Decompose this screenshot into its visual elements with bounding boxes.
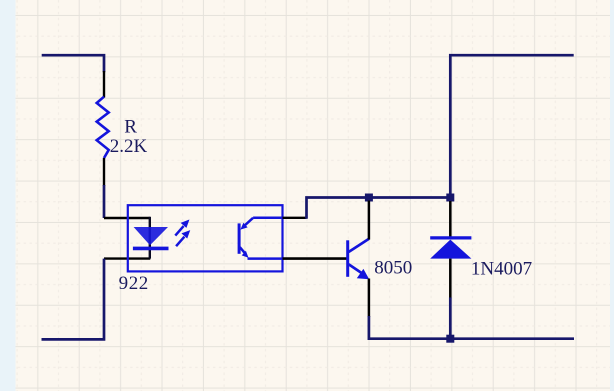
junction at diode top node bbox=[446, 194, 454, 202]
junction at bottom rail / diode bbox=[446, 335, 454, 343]
diode D1 cathode pin bbox=[449, 201, 452, 238]
wire: opto collector up and right to node bbox=[307, 198, 451, 219]
opto phototransistor collector lead bbox=[253, 217, 282, 220]
transistor Q1 collector pin bbox=[368, 201, 371, 240]
diode D1 triangle bbox=[430, 240, 471, 259]
opto phototransistor collector arrowhead bbox=[240, 223, 247, 230]
opto light arrow upper bbox=[175, 220, 188, 235]
junction at Q1 collector node bbox=[365, 194, 373, 202]
opto phototransistor emitter diagonal bbox=[240, 247, 245, 253]
diode D1 cathode bar bbox=[430, 236, 471, 239]
wire: Q1 emitter down to bottom rail bbox=[369, 316, 574, 339]
opto phototransistor emitter arrowhead bbox=[242, 251, 249, 258]
resistor R1 zigzag bbox=[97, 97, 109, 158]
wire: top-right horizontal and down to diode bbox=[450, 55, 573, 197]
transistor Q1 base bar bbox=[346, 240, 349, 276]
wire: R1 bottom to opto pin1 bbox=[103, 185, 106, 218]
opto phototransistor emitter lead bbox=[248, 257, 283, 260]
wire: diode anode to bottom rail bbox=[449, 298, 452, 339]
opto pin3 (emitter, bottom-right) joined with Q1 base pin bbox=[283, 257, 348, 260]
svg-text:R: R bbox=[124, 116, 137, 137]
opto phototransistor collector diagonal bbox=[244, 218, 254, 227]
opto LED cathode bar bbox=[133, 247, 169, 251]
svg-text:8050: 8050 bbox=[374, 258, 412, 279]
optocoupler U1 box bbox=[128, 205, 283, 271]
opto phototransistor base bar bbox=[238, 223, 241, 253]
wire: top-left horizontal and down to R1 bbox=[42, 55, 104, 72]
opto LED center lead bbox=[149, 217, 151, 259]
wire: opto pin2 down and left to edge bbox=[42, 259, 105, 340]
opto pin4 (collector, top-right) bbox=[283, 217, 307, 219]
opto U1 pin1 (anode, top-left) bbox=[104, 217, 150, 219]
opto U1 pin2 (cathode, bottom-left) bbox=[104, 257, 150, 259]
transistor Q1 emitter arrowhead bbox=[357, 269, 369, 279]
opto LED triangle bbox=[134, 227, 168, 245]
resistor R1 pin bottom bbox=[103, 158, 105, 186]
transistor Q1 collector diagonal bbox=[349, 239, 369, 252]
diode D1 anode pin bbox=[449, 259, 452, 299]
svg-text:1N4007: 1N4007 bbox=[471, 259, 532, 280]
svg-text:922: 922 bbox=[119, 273, 149, 294]
transistor Q1 emitter diagonal bbox=[349, 264, 361, 272]
transistor Q1 emitter pin bbox=[368, 279, 371, 318]
svg-text:2.2K: 2.2K bbox=[110, 136, 148, 157]
resistor R1 pin top bbox=[103, 71, 105, 98]
opto light arrow lower bbox=[176, 231, 189, 246]
